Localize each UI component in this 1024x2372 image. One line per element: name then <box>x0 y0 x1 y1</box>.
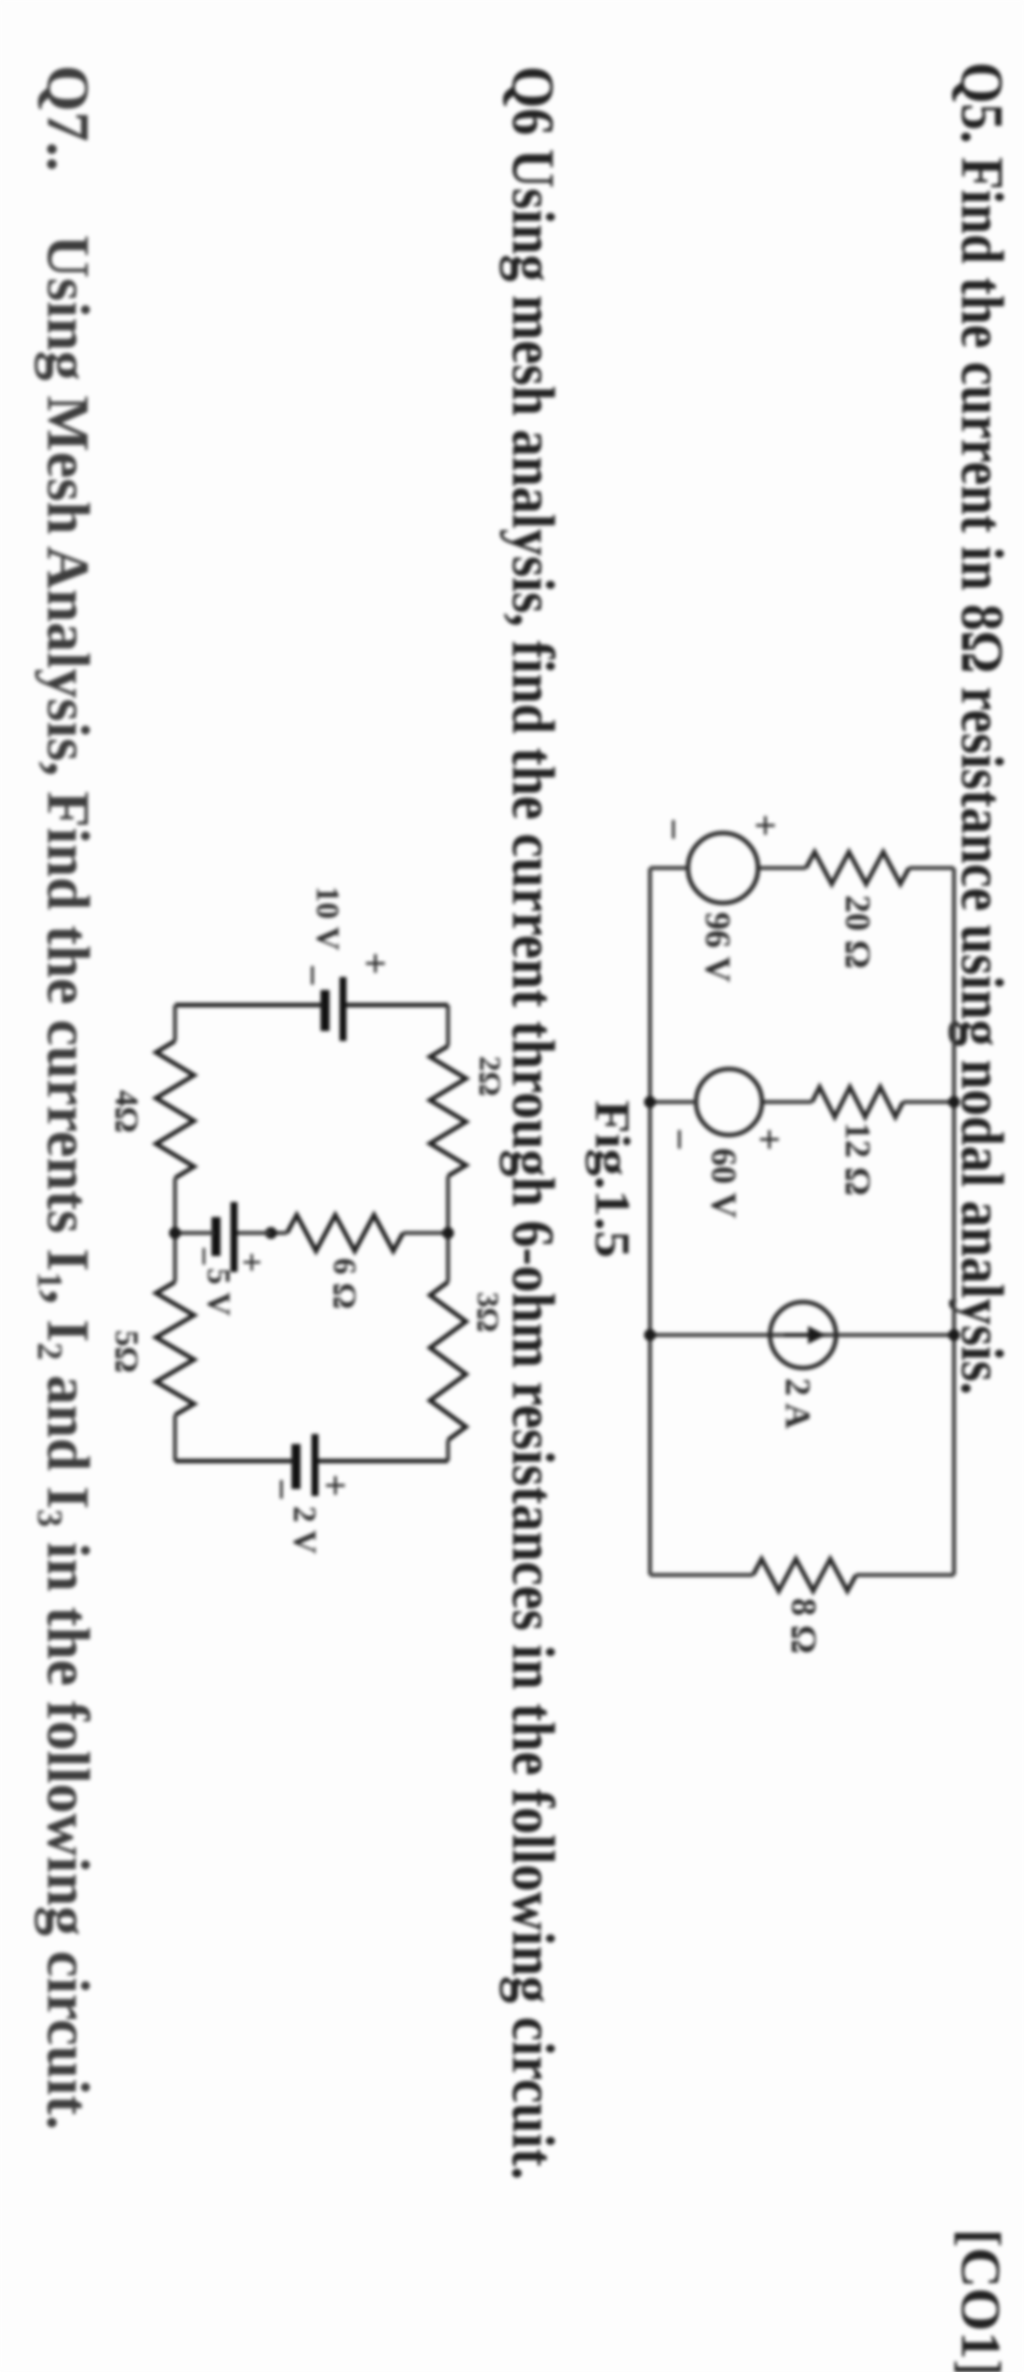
wire branch2 middle stub <box>762 1100 812 1104</box>
wire top rail right stub <box>446 1440 450 1461</box>
battery 2V long plate <box>312 1434 319 1496</box>
junction node bottom rail branch3 <box>644 1329 656 1341</box>
wire middle branch lower <box>175 1231 214 1235</box>
svg-text:−: − <box>651 818 696 841</box>
resistor R 4ohm <box>156 1041 194 1178</box>
battery 2V short plate <box>292 1444 301 1489</box>
svg-text:4Ω: 4Ω <box>108 1090 144 1133</box>
resistor R 8ohm <box>753 1559 856 1591</box>
wire branch2 lower stub <box>650 1100 696 1104</box>
wire bottom rail left stub <box>173 1005 177 1041</box>
resistor R 5ohm <box>156 1282 194 1415</box>
svg-text:2Ω: 2Ω <box>473 1056 508 1096</box>
wire bottom rail right stub <box>173 1415 177 1461</box>
svg-text:96 V: 96 V <box>698 912 738 982</box>
battery 5V short plate <box>212 1217 221 1256</box>
wire middle branch to node <box>271 1231 287 1235</box>
arrow of current source <box>784 1333 812 1337</box>
svg-text:Using Mesh Analysis, Find the: Using Mesh Analysis, Find the currents I… <box>30 235 101 2130</box>
junction node middle bottom <box>169 1227 181 1239</box>
svg-text:+: + <box>313 1474 358 1497</box>
wire left edge lower <box>175 1003 323 1008</box>
voltage source V1 circle 96V <box>688 833 758 903</box>
svg-text:−: − <box>657 1128 702 1151</box>
svg-text:−: − <box>290 964 335 987</box>
svg-text:[CO1]: [CO1] <box>949 2229 1011 2372</box>
battery 5V long plate <box>231 1202 238 1272</box>
wire branch2 upper stub <box>903 1100 954 1104</box>
wire top rail middle <box>446 1176 450 1282</box>
battery 10V short plate <box>321 990 330 1031</box>
svg-text:2 V: 2 V <box>286 1506 322 1554</box>
svg-text:+: + <box>743 814 788 837</box>
svg-text:8 Ω: 8 Ω <box>784 1598 824 1654</box>
junction node bottom rail branch2 <box>644 1096 656 1108</box>
voltage source V2 circle 60V <box>696 1069 762 1135</box>
wire top rail left stub <box>446 1005 450 1046</box>
wire branch3 <box>650 1333 954 1337</box>
junction node top rail branch2 <box>948 1096 960 1108</box>
svg-text:+: + <box>232 1252 272 1273</box>
battery 10V long plate <box>340 977 347 1041</box>
wire bottom rail <box>648 868 652 1575</box>
current source 2A circle <box>770 1302 836 1368</box>
svg-text:+: + <box>353 952 398 975</box>
resistor R 20ohm <box>806 852 909 884</box>
svg-text:−: − <box>184 1246 224 1267</box>
svg-text:+: + <box>747 1128 792 1151</box>
wire left branch lower stub <box>650 866 688 870</box>
wire middle branch upper (6ohm) <box>403 1231 448 1235</box>
wire left edge upper <box>345 1003 448 1008</box>
wire left branch upper stub <box>909 866 954 870</box>
wire right edge lower <box>175 1459 294 1464</box>
wire top rail <box>952 868 956 1575</box>
svg-text:5 V: 5 V <box>200 1268 236 1316</box>
svg-text:3Ω: 3Ω <box>471 1292 506 1332</box>
resistor R 3ohm <box>430 1282 466 1440</box>
wire node to battery 5V <box>236 1231 271 1235</box>
svg-text:12 Ω: 12 Ω <box>838 1122 878 1196</box>
svg-text:−: − <box>259 1478 304 1501</box>
resistor R 6ohm <box>287 1215 403 1251</box>
svg-text:6 Ω: 6 Ω <box>326 1258 362 1309</box>
resistor R 12ohm <box>812 1087 903 1117</box>
wire right edge lower stub <box>650 1573 753 1577</box>
junction node middle branch <box>265 1227 277 1239</box>
wire right edge upper stub <box>856 1573 954 1577</box>
svg-text:5Ω: 5Ω <box>108 1330 144 1373</box>
wire right edge upper <box>317 1459 448 1464</box>
junction node middle top <box>442 1227 454 1239</box>
svg-text:Q6 Using mesh analysis, find t: Q6 Using mesh analysis, find the current… <box>500 66 566 2180</box>
resistor R 2ohm <box>430 1046 466 1176</box>
svg-text:Q7..: Q7.. <box>35 65 101 172</box>
svg-text:Fig.1.5: Fig.1.5 <box>585 1100 641 1258</box>
wire left branch middle stub <box>758 866 806 870</box>
junction node top rail branch3 <box>948 1329 960 1341</box>
svg-text:60 V: 60 V <box>704 1148 744 1218</box>
svg-text:10 V: 10 V <box>309 886 345 951</box>
wire bottom rail middle <box>173 1178 177 1282</box>
svg-text:2 A: 2 A <box>778 1378 818 1429</box>
svg-text:20 Ω: 20 Ω <box>838 895 878 969</box>
svg-text:Q5. Find the current in 8Ω res: Q5. Find the current in 8Ω resistance us… <box>949 62 1015 1395</box>
